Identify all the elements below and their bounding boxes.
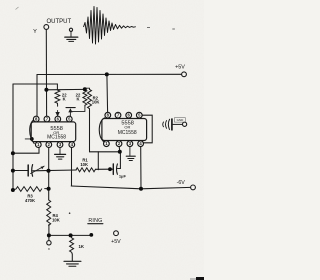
- svg-text:10K: 10K: [80, 162, 88, 167]
- svg-text:OR: OR: [124, 125, 130, 130]
- svg-text:1K: 1K: [78, 244, 84, 249]
- svg-text:RING: RING: [88, 218, 102, 224]
- svg-text:-6V: -6V: [177, 180, 186, 186]
- svg-text:K: K: [63, 97, 66, 102]
- svg-text:MC1558: MC1558: [118, 130, 137, 136]
- svg-text:+5V: +5V: [175, 64, 185, 70]
- svg-text:10K: 10K: [92, 99, 100, 104]
- svg-text:+5V: +5V: [111, 239, 121, 245]
- svg-text:MC1558: MC1558: [47, 135, 66, 141]
- svg-text:K: K: [76, 97, 79, 102]
- svg-text:Y: Y: [33, 29, 37, 35]
- svg-text:OUTPUT: OUTPUT: [46, 19, 71, 25]
- svg-text:10K: 10K: [52, 217, 60, 222]
- svg-text:x: x: [48, 246, 50, 251]
- svg-text:GND: GND: [177, 118, 185, 122]
- svg-text:470K: 470K: [25, 198, 35, 203]
- svg-text:1μF: 1μF: [119, 174, 127, 179]
